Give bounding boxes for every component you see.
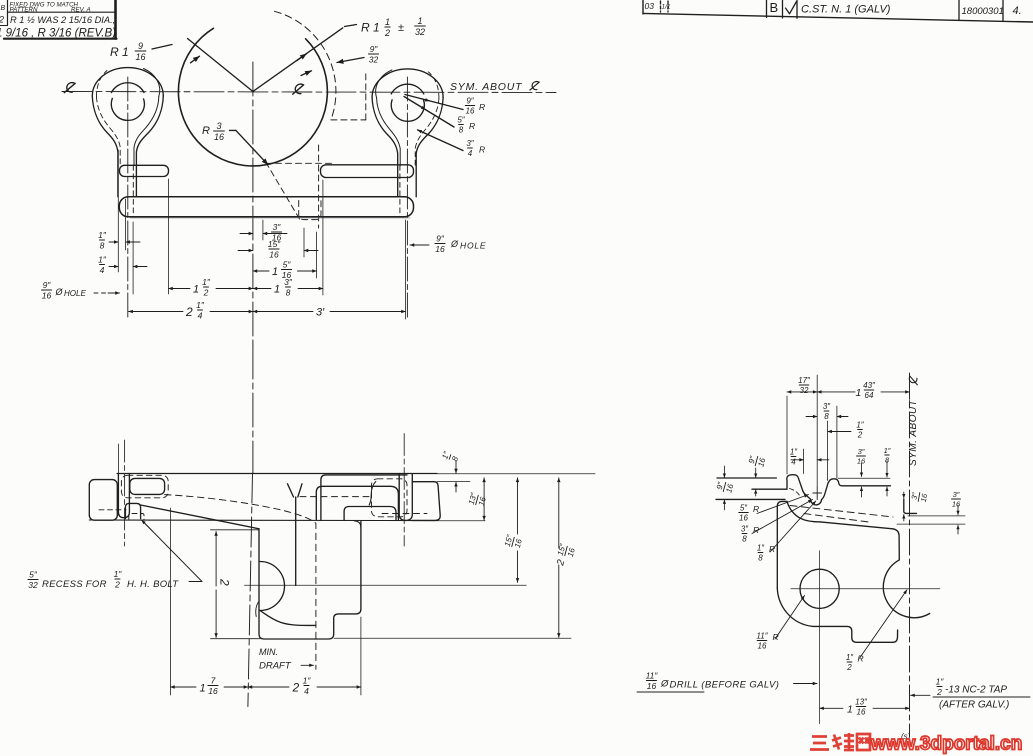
svg-text:18000301: 18000301 <box>962 6 1004 17</box>
svg-text:16: 16 <box>952 500 961 509</box>
dim 1-3/8 <box>253 288 271 290</box>
svg-text:16: 16 <box>756 456 767 467</box>
dashed vertical near left stem <box>132 165 134 217</box>
side view flange bottom <box>89 519 437 522</box>
right ear flank left (double) <box>372 97 398 196</box>
right end cap <box>412 482 440 521</box>
svg-text:32: 32 <box>28 580 38 590</box>
svg-text:R: R <box>479 102 485 112</box>
svg-text:3″: 3″ <box>741 525 749 534</box>
left hidden recess dashed <box>99 509 126 511</box>
svg-text:43″: 43″ <box>863 381 876 390</box>
svg-text:13″: 13″ <box>855 698 868 707</box>
body top-left corner <box>777 501 787 588</box>
label 9/16 hole right <box>410 244 429 246</box>
label 9/16 hole left <box>41 280 51 300</box>
svg-text:C.ST. N. 1 (GALV): C.ST. N. 1 (GALV) <box>801 4 891 16</box>
left ear flank left <box>92 96 118 197</box>
svg-text:17″: 17″ <box>798 376 811 385</box>
title strip top-right <box>642 0 644 14</box>
web outline <box>259 522 361 640</box>
dim 3/16 far right <box>952 490 961 509</box>
svg-text:1″: 1″ <box>846 653 854 662</box>
ext lines below top view <box>117 150 119 272</box>
svg-text:Ø: Ø <box>55 287 64 297</box>
svg-text:3″: 3″ <box>910 492 920 501</box>
fillet at web right edge top <box>355 521 361 528</box>
svg-text:8: 8 <box>742 535 747 544</box>
centerline symbol left <box>64 83 75 93</box>
svg-text:R: R <box>858 654 864 664</box>
svg-text:9: 9 <box>138 41 143 51</box>
svg-text:8: 8 <box>100 240 105 250</box>
svg-text:Ø: Ø <box>660 679 669 690</box>
left bolt boss <box>125 503 140 518</box>
gap 9/32 label <box>368 44 378 64</box>
svg-text:16: 16 <box>42 290 52 300</box>
svg-text:3″: 3″ <box>466 139 474 148</box>
sym side step <box>904 499 917 513</box>
left ear boss outer arc <box>92 68 163 96</box>
svg-text:16: 16 <box>135 52 145 62</box>
web bottom ext line <box>211 638 261 640</box>
svg-text:MIN.: MIN. <box>259 647 278 657</box>
svg-text:-13 NC-2 TAP: -13 NC-2 TAP <box>945 685 1007 696</box>
svg-text:64: 64 <box>865 391 874 400</box>
svg-text:1″: 1″ <box>202 277 211 287</box>
svg-text:5″: 5″ <box>29 570 38 580</box>
dashed vertical near right stem <box>399 165 401 217</box>
right pad dashed rect <box>372 479 408 517</box>
dim 1/8 (right, top) <box>440 449 461 463</box>
svg-text:3″: 3″ <box>273 222 282 232</box>
hidden cylinder dashed curve <box>165 495 316 670</box>
svg-text:SYM. ABOUT: SYM. ABOUT <box>908 399 919 466</box>
svg-text:R 1 ½ WAS 2 15/16 DIA.,: R 1 ½ WAS 2 15/16 DIA., <box>10 15 115 25</box>
svg-text:32: 32 <box>369 54 379 64</box>
svg-text:1: 1 <box>417 16 422 26</box>
svg-text:Ø: Ø <box>450 239 459 249</box>
left pad dashed <box>121 475 168 498</box>
big circle R 1-1/2 solid arc <box>178 28 327 166</box>
svg-text:8: 8 <box>459 126 464 135</box>
svg-text:HOLE: HOLE <box>460 241 486 251</box>
hidden pattern dashed lines below circle <box>266 162 335 164</box>
right pad hidden dashes <box>300 496 371 498</box>
dim 2 vertical <box>215 532 217 587</box>
left ear vertical centerline <box>127 77 129 318</box>
svg-text:32: 32 <box>415 27 425 37</box>
leader 5/8 R <box>404 97 454 128</box>
svg-text:R: R <box>202 125 210 137</box>
svg-text:16: 16 <box>477 495 488 506</box>
right ear dashed pattern arc <box>428 72 439 99</box>
dim 15/16 <box>238 250 253 252</box>
svg-text:5″: 5″ <box>740 504 748 513</box>
left ear section <box>118 474 129 518</box>
watermark 3dportal <box>810 733 870 750</box>
svg-text:3″: 3″ <box>823 402 831 411</box>
svg-text:1″: 1″ <box>196 300 205 310</box>
section lower-left edge <box>716 498 785 500</box>
svg-text:2: 2 <box>218 578 232 586</box>
svg-text:1: 1 <box>847 704 853 716</box>
dim 1/4 <box>98 255 107 275</box>
dim 3/16 rotated at sym step <box>909 491 929 504</box>
dim 1-43/64 <box>817 391 855 393</box>
svg-text:3: 3 <box>216 121 221 131</box>
svg-text:16: 16 <box>269 249 279 259</box>
svg-text:16: 16 <box>513 537 524 548</box>
svg-text:2: 2 <box>203 287 209 297</box>
pad draft S curve <box>369 482 376 506</box>
drill hole centerlines <box>791 588 940 590</box>
left ear hole <box>111 98 144 120</box>
svg-text:5″: 5″ <box>283 260 292 270</box>
groove center mark <box>816 487 818 500</box>
bar lower faint line <box>130 217 410 219</box>
svg-text:1: 1 <box>193 284 199 296</box>
svg-text:R: R <box>469 121 475 131</box>
svg-text:1″: 1″ <box>98 255 107 265</box>
svg-text:R: R <box>753 504 759 514</box>
dim 9/16 a <box>747 454 768 468</box>
svg-text:1: 1 <box>272 266 278 278</box>
right ext lines <box>908 515 965 517</box>
boss lower fillet to pocket bottom <box>260 611 316 626</box>
drill hole circle <box>800 569 839 608</box>
bolt hole horizontal centerline <box>245 584 527 586</box>
right ear flank right <box>416 97 443 196</box>
svg-text:±: ± <box>398 22 404 34</box>
svg-text:8: 8 <box>824 412 829 421</box>
leader 1/2 R <box>846 653 854 672</box>
svg-text:9″: 9″ <box>370 44 379 54</box>
svg-text:16: 16 <box>919 492 929 503</box>
svg-text:PATTERN: PATTERN <box>10 7 38 14</box>
body bottom <box>777 588 897 642</box>
dim 1/8 <box>98 230 107 250</box>
svg-text:1″: 1″ <box>757 544 765 553</box>
right pad inner step <box>344 507 396 521</box>
svg-text:1: 1 <box>856 387 862 399</box>
svg-text:9″: 9″ <box>436 234 445 244</box>
dim 1/4 <box>790 448 798 467</box>
svg-text:16: 16 <box>435 244 445 254</box>
left end cap <box>89 480 117 521</box>
dim 3/16 small <box>857 447 866 466</box>
dim 3/8 <box>823 402 831 421</box>
svg-text:B: B <box>1 5 6 12</box>
dim 15/16 <box>517 478 519 534</box>
svg-text:REV. A: REV. A <box>71 7 91 14</box>
svg-text:16: 16 <box>724 482 735 493</box>
left ear flank right (double) <box>136 96 163 197</box>
big circle dashed pattern arc R 1-9/16 <box>274 11 336 120</box>
leader 3/4 R <box>418 130 464 151</box>
dim 1-7/16 <box>169 508 171 695</box>
step tick at web left <box>211 529 260 531</box>
hidden pattern dashed step right of circle <box>331 119 366 121</box>
svg-text:16: 16 <box>208 686 218 696</box>
section sym centerline <box>909 373 911 737</box>
main bar <box>119 197 413 217</box>
svg-text:2: 2 <box>936 687 942 697</box>
svg-text:1″: 1″ <box>303 676 312 686</box>
right ear vertical centerline <box>406 77 408 318</box>
section left far surface <box>717 477 776 479</box>
centerline symbol mid <box>293 84 304 94</box>
svg-text:2: 2 <box>555 558 567 568</box>
svg-text:16: 16 <box>566 546 577 557</box>
svg-text:16: 16 <box>466 107 475 116</box>
section left near surface <box>752 488 787 490</box>
leader R 1-1/2 +/- 1/32 <box>253 28 343 92</box>
svg-text:www.3dportal.cn: www.3dportal.cn <box>870 734 1022 755</box>
svg-text:2: 2 <box>846 663 852 672</box>
svg-text:1: 1 <box>385 17 390 27</box>
ext verticals section <box>786 396 788 474</box>
svg-text:RECESS FOR: RECESS FOR <box>42 579 107 590</box>
cap top ext line <box>437 481 470 483</box>
svg-text:1″: 1″ <box>98 230 107 240</box>
svg-text:11″: 11″ <box>756 632 768 641</box>
svg-text:1″: 1″ <box>856 421 864 430</box>
svg-text:2: 2 <box>384 28 390 38</box>
slope right end curve <box>892 529 899 560</box>
leader R 1-9/16 <box>188 39 253 92</box>
hump1 hidden dashed <box>790 489 801 497</box>
svg-text:03: 03 <box>645 1 655 11</box>
svg-text:5″: 5″ <box>457 116 465 125</box>
svg-text:R: R <box>773 632 779 642</box>
bottom slope solid <box>820 522 892 529</box>
revision table top-left <box>114 0 117 39</box>
svg-text:32: 32 <box>800 386 809 395</box>
right pad solid <box>321 475 407 521</box>
right ear section <box>399 474 412 521</box>
svg-text:16: 16 <box>739 514 748 523</box>
svg-text:4: 4 <box>468 149 473 158</box>
svg-text:4: 4 <box>100 265 105 275</box>
bolt hole wall vertical <box>295 497 297 586</box>
checkmark <box>786 2 797 14</box>
svg-text:1″: 1″ <box>884 446 891 455</box>
svg-text:4: 4 <box>304 686 309 696</box>
dim 3 <box>253 311 313 313</box>
left ear dashed pattern arc <box>96 71 107 98</box>
svg-text:8: 8 <box>758 554 763 563</box>
svg-text:16: 16 <box>214 132 224 142</box>
svg-text:1″: 1″ <box>114 569 123 579</box>
svg-text:HOLE: HOLE <box>64 289 86 298</box>
side view top surface <box>117 473 437 475</box>
svg-text:2: 2 <box>114 579 120 589</box>
dashed hidden slopes <box>790 506 893 518</box>
svg-text:1: 1 <box>200 683 206 695</box>
svg-text:DRAFT: DRAFT <box>259 661 292 672</box>
dim 13/16 <box>483 478 485 520</box>
main vertical centerline <box>252 62 254 345</box>
svg-text:H. H. BOLT: H. H. BOLT <box>127 579 179 590</box>
leader 3/8 R <box>741 525 749 544</box>
svg-text:1: 1 <box>274 284 280 296</box>
dim 2-15/16 <box>558 478 560 548</box>
ext verticals from top view to side view <box>117 444 119 474</box>
svg-text:4: 4 <box>198 310 203 320</box>
svg-text:R: R <box>479 145 485 155</box>
top view horizontal centerline <box>62 92 556 93</box>
label 5/32 recess <box>28 570 38 590</box>
svg-text:9″: 9″ <box>43 280 52 290</box>
svg-text:R: R <box>769 544 775 554</box>
svg-text:(AFTER GALV.): (AFTER GALV.) <box>939 700 1009 711</box>
leader 5/16 R <box>739 504 749 523</box>
dim 1/2 <box>828 431 851 433</box>
leader 9/16 R <box>405 95 463 110</box>
svg-text:16: 16 <box>282 270 292 280</box>
label 1/2-13 NC-2 TAP <box>936 677 945 697</box>
svg-text:16: 16 <box>758 642 767 651</box>
svg-text:1 9/16 , R 3/16 (REV.B): 1 9/16 , R 3/16 (REV.B) <box>0 28 116 40</box>
dim 1/8 small <box>884 446 891 465</box>
slant draft line <box>141 505 259 529</box>
svg-text:9″: 9″ <box>466 97 474 106</box>
right ear boss outer arc <box>372 69 443 98</box>
svg-text:2: 2 <box>185 305 193 319</box>
svg-text:3″: 3″ <box>858 447 865 456</box>
leader 11/16 R <box>756 632 768 651</box>
left pad solid <box>130 478 165 494</box>
right rib <box>321 165 414 178</box>
svg-text:B: B <box>770 0 779 15</box>
tap hole arc at sym <box>883 560 929 617</box>
svg-text:1″: 1″ <box>790 448 798 457</box>
fillet arc under hump1 <box>787 501 820 522</box>
side view centerline continuation <box>248 473 253 707</box>
dim 17/32 <box>787 391 817 393</box>
svg-text:11″: 11″ <box>646 671 659 681</box>
svg-text:2: 2 <box>0 15 4 25</box>
label 11/16 drill <box>646 671 659 691</box>
dim 1-13/16 <box>820 707 843 709</box>
svg-text:SYM. ABOUT: SYM. ABOUT <box>450 81 523 93</box>
svg-text:2: 2 <box>292 681 300 695</box>
leader 1/8 R <box>757 544 765 563</box>
svg-text:8: 8 <box>450 455 460 463</box>
hump2 top ext right <box>838 477 890 479</box>
svg-text:DRILL (BEFORE GALV): DRILL (BEFORE GALV) <box>670 680 780 691</box>
svg-text:16: 16 <box>857 708 866 717</box>
svg-text:4.: 4. <box>1013 5 1022 17</box>
dim 1-5/16 <box>253 270 269 272</box>
hole funnel <box>288 484 294 497</box>
svg-text:R 1: R 1 <box>110 45 129 59</box>
svg-text:7: 7 <box>211 676 216 686</box>
bolt boss half circle <box>260 562 285 611</box>
dim 9/16 b <box>715 480 736 494</box>
svg-text:2: 2 <box>857 431 863 440</box>
hump2 outline <box>829 479 891 486</box>
svg-text:4: 4 <box>791 458 796 467</box>
svg-text:8: 8 <box>286 287 291 297</box>
left rib <box>120 165 169 176</box>
small fillet bump left <box>256 601 259 617</box>
U groove <box>806 483 828 505</box>
dim 2-1/4 <box>129 311 183 313</box>
svg-text:16: 16 <box>647 681 657 691</box>
dim 2-1/4 (side view) <box>360 617 362 695</box>
svg-text:3″: 3″ <box>953 490 960 499</box>
hump1 outline <box>787 475 806 496</box>
right ear hole <box>391 99 424 121</box>
svg-text:1″: 1″ <box>936 677 945 687</box>
svg-text:3′: 3′ <box>316 307 325 319</box>
svg-text:1/1: 1/1 <box>662 4 671 11</box>
svg-text:R 1: R 1 <box>361 21 380 35</box>
dim 1-1/2 <box>169 288 191 290</box>
dim 3/16 <box>240 233 253 235</box>
